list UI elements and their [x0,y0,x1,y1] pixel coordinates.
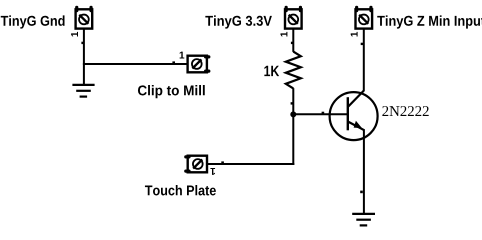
label TinyG Gnd [1,15,65,28]
label TinyG 3.3V [205,15,272,28]
connector J3 "TinyG 3.3V" screw terminal [285,7,302,28]
pin 1 of J5 [351,32,358,37]
pin-end tick clip wire [172,61,175,63]
wire base node down to Touch Plate (horizontal) [207,163,294,165]
wire base node to Q1 base [292,113,348,115]
wire J5 to Q1 collector [363,28,365,92]
connector J1 "TinyG Gnd" screw terminal [76,7,93,28]
pin 1 of J2 [180,52,185,59]
pin-end tick J3 [291,42,294,44]
resistor R1 1K [286,52,301,89]
wire R1 to base node (vertical) [292,88,294,165]
junction dot at base node [290,111,296,117]
pin-end tick emitter wire [360,191,363,194]
transistor Q1 2N2222 (NPN) [330,91,378,141]
pin 1 of J3 [281,32,288,37]
label Clip to Mill [138,85,205,98]
pin-end tick J5 [361,43,364,45]
ground symbol GND1 [72,85,94,97]
wire Q1 emitter to ground [363,129,365,214]
pin-end tick touch wire [221,161,224,163]
pin 1 of J4 [210,168,215,175]
label TinyG Z Min Input [377,15,482,28]
label 2N2222 [382,106,428,116]
Q1 emitter arrowhead [354,122,361,128]
label Touch Plate [145,185,216,195]
pin-end tick Q1 base wire [322,112,325,114]
wire J1 pin to GND net (vertical) [83,28,85,85]
pin 1 of J1 [71,32,78,37]
ground symbol GND2 [352,214,375,226]
wire J3 to resistor R1 [292,28,294,52]
label 1K [264,66,279,76]
pin-end tick R1 bottom [291,102,293,104]
wire GND net to Clip to Mill (horizontal) [83,63,188,65]
pin-end tick J1 [81,42,84,44]
connector J5 "TinyG Z Min Input" screw terminal [356,7,373,28]
connector J4 "Touch Plate" screw terminal (ears left) [186,156,207,173]
connector J2 "Clip to Mill" screw terminal (ears right) [188,56,209,73]
